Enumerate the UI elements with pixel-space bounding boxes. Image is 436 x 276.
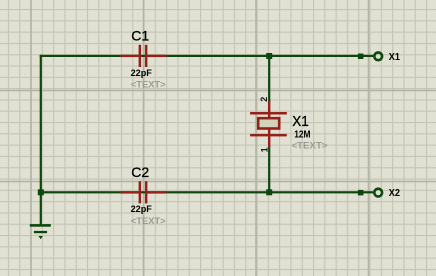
major grid line vertical x=31 xyxy=(30,0,32,276)
X1 stub bar to body xyxy=(268,115,270,118)
C1 left plate xyxy=(139,45,142,67)
junction node: bottom wire / crystal branch xyxy=(266,189,272,195)
capacitor C1 xyxy=(121,45,167,67)
X1 stub body to bar xyxy=(268,130,270,134)
svg-text:22pF: 22pF xyxy=(131,68,153,78)
capacitor C2 xyxy=(121,181,167,203)
terminal X2 square pad xyxy=(358,190,364,196)
wire: crystal bottom branch (crystal pin 1 to bottom net) xyxy=(268,146,270,193)
svg-text:2: 2 xyxy=(259,97,269,102)
major grid line horizontal y=181.5 xyxy=(0,181,436,183)
crystal X1 xyxy=(250,101,287,148)
wire: bottom horizontal net from ground junction to terminal X2 xyxy=(40,191,374,193)
major grid line vertical x=143.5 xyxy=(143,0,145,276)
svg-text:X1: X1 xyxy=(292,113,309,130)
wire: ground stem xyxy=(40,192,42,225)
wire: crystal top branch (junction to crystal pin 2) xyxy=(268,55,270,102)
svg-text:12M: 12M xyxy=(294,130,310,141)
wire: left vertical from top-left corner down to ground junction xyxy=(40,55,42,193)
C2 left plate xyxy=(139,181,142,203)
X1 top electrode bar xyxy=(250,112,287,115)
C1 left lead xyxy=(121,55,139,57)
svg-text:X2: X2 xyxy=(389,188,401,199)
terminal X2 circle xyxy=(374,189,382,197)
ground symbol xyxy=(30,224,51,239)
svg-text:22pF: 22pF xyxy=(131,204,153,214)
major grid line vertical x=368.5 xyxy=(368,0,370,276)
C2 left lead xyxy=(121,191,139,193)
terminal X2 (bottom right) xyxy=(358,189,382,197)
svg-text:<TEXT>: <TEXT> xyxy=(131,79,166,89)
X1 pin 1 stub xyxy=(268,136,270,147)
X1 bottom electrode bar xyxy=(250,134,287,137)
svg-text:<TEXT>: <TEXT> xyxy=(131,216,166,226)
wire: top horizontal net from corner to terminal X1 xyxy=(40,55,374,57)
C1 right lead xyxy=(147,55,167,57)
C1 right plate xyxy=(145,45,148,67)
svg-text:C2: C2 xyxy=(131,164,149,180)
svg-text:1: 1 xyxy=(259,147,269,152)
svg-text:<TEXT>: <TEXT> xyxy=(292,141,328,151)
terminal X1 circle xyxy=(374,52,382,60)
ground bar 3 (tip) xyxy=(39,236,43,239)
junction node: top wire / crystal branch xyxy=(266,53,272,59)
C2 right plate xyxy=(145,181,148,203)
C2 right lead xyxy=(147,191,167,193)
major grid line horizontal y=90.5 xyxy=(0,90,436,92)
terminal X1 square pad xyxy=(358,54,364,60)
major grid line vertical x=256 xyxy=(255,0,257,276)
terminal X1 (top right) xyxy=(358,52,382,60)
svg-text:C1: C1 xyxy=(131,28,149,44)
ground bar 1 xyxy=(30,224,51,227)
junction node: bottom wire / left vertical / ground xyxy=(38,189,44,195)
X1 body rectangle xyxy=(258,118,279,128)
svg-text:X1: X1 xyxy=(389,52,401,63)
X1 pin 2 stub xyxy=(268,101,270,113)
ground bar 2 xyxy=(34,231,47,233)
